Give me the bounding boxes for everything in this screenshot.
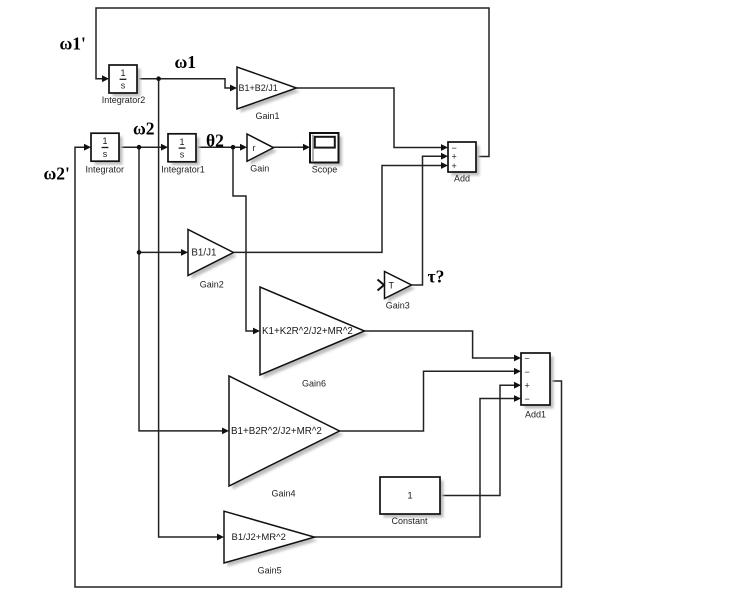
svg-text:r: r bbox=[253, 143, 256, 153]
svg-text:Constant: Constant bbox=[391, 516, 428, 526]
svg-text:Gain6: Gain6 bbox=[302, 379, 326, 389]
svg-text:+: + bbox=[452, 151, 457, 161]
svg-text:−: − bbox=[525, 353, 530, 363]
svg-text:s: s bbox=[180, 150, 185, 160]
svg-text:Gain3: Gain3 bbox=[386, 301, 410, 311]
svg-text:θ2: θ2 bbox=[206, 131, 224, 151]
svg-text:ω2: ω2 bbox=[133, 119, 155, 139]
svg-text:Integrator2: Integrator2 bbox=[102, 95, 146, 105]
svg-text:Integrator1: Integrator1 bbox=[161, 165, 205, 175]
svg-text:τ?: τ? bbox=[428, 267, 445, 287]
svg-text:Add1: Add1 bbox=[525, 410, 546, 420]
svg-text:B1/J2+MR^2: B1/J2+MR^2 bbox=[232, 532, 286, 543]
svg-text:Gain: Gain bbox=[250, 164, 269, 174]
svg-text:ω1: ω1 bbox=[175, 52, 197, 72]
svg-text:+: + bbox=[452, 161, 457, 171]
svg-text:B1+B2/J1: B1+B2/J1 bbox=[239, 83, 278, 93]
svg-text:Gain5: Gain5 bbox=[258, 566, 282, 576]
svg-text:B1/J1: B1/J1 bbox=[191, 247, 216, 258]
svg-text:Gain2: Gain2 bbox=[200, 280, 224, 290]
svg-text:ω2': ω2' bbox=[44, 164, 70, 184]
svg-text:Add: Add bbox=[454, 174, 470, 184]
svg-text:Integrator: Integrator bbox=[86, 165, 125, 175]
svg-text:1: 1 bbox=[407, 491, 412, 502]
svg-text:Gain1: Gain1 bbox=[255, 111, 279, 121]
svg-text:−: − bbox=[525, 367, 530, 377]
svg-text:T: T bbox=[389, 280, 395, 290]
svg-text:Scope: Scope bbox=[312, 165, 338, 175]
svg-text:+: + bbox=[525, 381, 530, 391]
svg-text:1: 1 bbox=[179, 137, 184, 147]
svg-text:s: s bbox=[121, 81, 126, 91]
svg-text:−: − bbox=[525, 394, 530, 404]
svg-text:1: 1 bbox=[120, 68, 125, 78]
svg-text:s: s bbox=[103, 149, 108, 159]
svg-text:1: 1 bbox=[102, 136, 107, 146]
svg-text:K1+K2R^2/J2+MR^2: K1+K2R^2/J2+MR^2 bbox=[262, 326, 353, 337]
svg-text:Gain4: Gain4 bbox=[271, 489, 295, 499]
svg-text:ω1': ω1' bbox=[60, 34, 86, 54]
svg-text:B1+B2R^2/J2+MR^2: B1+B2R^2/J2+MR^2 bbox=[231, 426, 322, 437]
